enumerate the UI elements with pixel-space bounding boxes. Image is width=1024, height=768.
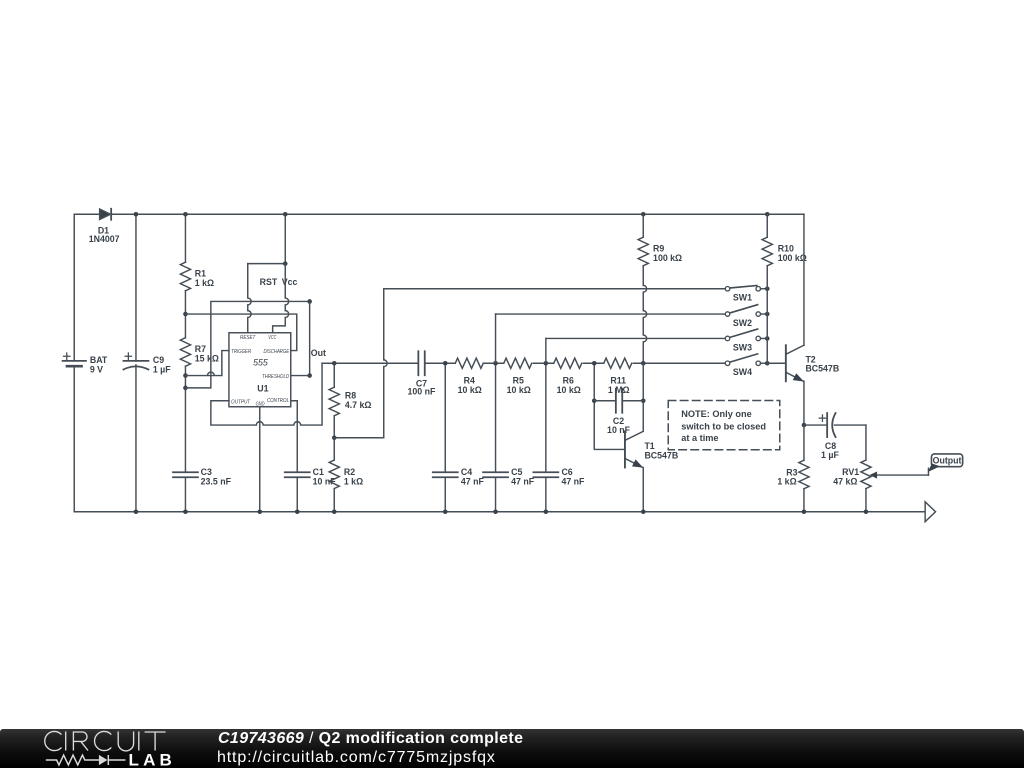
svg-text:1 MΩ: 1 MΩ xyxy=(608,385,630,395)
svg-text:15 kΩ: 15 kΩ xyxy=(195,353,219,363)
svg-text:Out: Out xyxy=(311,348,326,358)
svg-text:U1: U1 xyxy=(257,383,268,393)
svg-text:47 nF: 47 nF xyxy=(461,476,485,486)
svg-text:4.7 kΩ: 4.7 kΩ xyxy=(345,400,372,410)
wire T2 emitter drop xyxy=(803,381,805,425)
resistor R7 15 kOhm xyxy=(180,314,219,472)
svg-text:100 kΩ: 100 kΩ xyxy=(653,253,682,263)
svg-text:10 kΩ: 10 kΩ xyxy=(507,385,531,395)
wire T1 base drop xyxy=(594,363,625,449)
capacitor C3 23.5 nF xyxy=(173,467,232,512)
svg-text:1 µF: 1 µF xyxy=(821,450,839,460)
wire discharge net (R1/R7 to DIS pin) xyxy=(185,314,296,351)
svg-text:OUTPUT: OUTPUT xyxy=(231,399,251,405)
node C2 left junction xyxy=(592,398,597,403)
capacitor C6 47 nF xyxy=(533,363,585,512)
svg-text:R7: R7 xyxy=(195,344,206,354)
svg-text:SW1: SW1 xyxy=(733,293,752,303)
node top-rail junction at R9 xyxy=(641,212,646,217)
wire SW2 row xyxy=(496,313,726,315)
CircuitLab logo xyxy=(0,729,190,767)
svg-text:R10: R10 xyxy=(778,243,794,253)
wire GND pin to ground rail xyxy=(259,407,261,512)
resistor R3 1 kOhm xyxy=(777,425,809,512)
node ground junction at R2 xyxy=(332,509,337,514)
node C2 right junction xyxy=(641,398,646,403)
resistor R8 4.7 kOhm xyxy=(329,363,371,438)
node signal junction at C6 xyxy=(544,361,549,366)
node ground junction at C3 xyxy=(183,509,188,514)
svg-text:1N4007: 1N4007 xyxy=(89,234,120,244)
svg-text:SW2: SW2 xyxy=(733,318,752,328)
svg-text:CONTROL: CONTROL xyxy=(267,398,289,404)
wire top rail (Vcc net) xyxy=(74,213,804,215)
svg-text:Output: Output xyxy=(933,455,962,465)
node signal-T1base junction xyxy=(592,361,597,366)
capacitor C1 10 nF on CONTROL pin xyxy=(285,401,337,512)
wire SW1 row xyxy=(384,288,726,290)
node Vcc loop junction xyxy=(283,261,288,266)
svg-text:10 nF: 10 nF xyxy=(313,476,337,486)
wire T1 collector riser xyxy=(642,363,644,431)
svg-text:RESET: RESET xyxy=(240,335,256,341)
wire RST pin drop (hops A,B) xyxy=(248,264,251,333)
wire threshold net horizontal xyxy=(185,301,309,387)
capacitor C5 47 nF xyxy=(483,363,535,512)
node R7-trigger junction xyxy=(183,373,188,378)
node Out-line top junction xyxy=(307,299,312,304)
wire Vcc pin drop (hops A,B) xyxy=(273,264,289,333)
svg-text:1 kΩ: 1 kΩ xyxy=(777,476,796,486)
wire ground rail (bottom) xyxy=(74,511,925,513)
node ground junction at T1 emitter xyxy=(641,509,646,514)
node SW1-R10 junction xyxy=(765,286,770,291)
switch SW2 xyxy=(725,305,767,328)
resistor R9 100 kOhm xyxy=(638,214,682,363)
node top-rail junction at C9 xyxy=(134,212,139,217)
rail end arrow xyxy=(925,502,935,522)
resistor R6 10 kOhm xyxy=(554,358,582,395)
resistor R1 1 kOhm xyxy=(180,214,214,314)
svg-text:100 nF: 100 nF xyxy=(408,387,436,397)
note box (dashed) xyxy=(668,401,780,450)
svg-text:1 kΩ: 1 kΩ xyxy=(195,278,214,288)
svg-text:DISCHARGE: DISCHARGE xyxy=(264,349,290,355)
node signal junction at C4 xyxy=(443,361,448,366)
svg-text:switch to be closed: switch to be closed xyxy=(681,421,766,431)
node ground junction at C4 xyxy=(443,509,448,514)
node top-rail junction at R1 xyxy=(183,212,188,217)
capacitor C2 10 nF xyxy=(594,389,643,435)
svg-text:LAB: LAB xyxy=(129,750,177,767)
node SW2-R10 junction xyxy=(765,312,770,317)
svg-text:VCC: VCC xyxy=(268,335,276,341)
node Output flag xyxy=(928,454,963,472)
svg-text:1 kΩ: 1 kΩ xyxy=(344,476,363,486)
node top-rail junction at 555 Vcc xyxy=(283,212,288,217)
svg-text:47 kΩ: 47 kΩ xyxy=(833,476,857,486)
svg-text:Vcc: Vcc xyxy=(282,277,298,287)
svg-text:BC547B: BC547B xyxy=(805,364,839,374)
node R1-R7-discharge junction xyxy=(183,312,188,317)
svg-text:R9: R9 xyxy=(653,243,664,253)
svg-text:47 nF: 47 nF xyxy=(511,476,535,486)
svg-text:SW3: SW3 xyxy=(733,342,752,352)
svg-text:10 nF: 10 nF xyxy=(607,425,631,435)
wire signal line (555 out net) xyxy=(322,362,725,364)
node SW4-T2 junction xyxy=(765,361,770,366)
svg-text:BC547B: BC547B xyxy=(644,450,678,460)
node ground junction at RV1 xyxy=(864,509,869,514)
node R8-R2-SW1 junction xyxy=(332,435,337,440)
svg-text:THRESHOLD: THRESHOLD xyxy=(262,374,289,380)
wire 555 output to signal line (hops GND,CONTROL) xyxy=(211,363,322,425)
node ground junction at GND xyxy=(257,509,262,514)
switch SW4 xyxy=(725,354,767,377)
resistor R2 1 kOhm xyxy=(329,438,363,512)
wire threshold pin xyxy=(291,375,310,377)
transistor T2 BC547B xyxy=(786,345,839,381)
node top-rail junction at R10 xyxy=(765,212,770,217)
svg-text:9 V: 9 V xyxy=(90,364,103,374)
node ground junction at R3 xyxy=(802,509,807,514)
wire SW3 row xyxy=(546,337,726,339)
transistor T1 BC547B xyxy=(625,431,678,511)
svg-text:RST: RST xyxy=(260,277,278,287)
capacitor C7 100 nF xyxy=(408,351,436,396)
svg-text:10 kΩ: 10 kΩ xyxy=(458,385,482,395)
wire trigger pin jog (hop) xyxy=(185,351,229,376)
svg-text:NOTE: Only one: NOTE: Only one xyxy=(681,409,751,419)
svg-text:555: 555 xyxy=(253,358,268,368)
node Out-threshold junction xyxy=(307,373,312,378)
svg-text:10 kΩ: 10 kΩ xyxy=(557,385,581,395)
svg-text:RV1: RV1 xyxy=(842,467,859,477)
wire Vcc drop from top rail xyxy=(284,214,286,263)
wire SW2 tap riser xyxy=(495,314,497,363)
node R7-threshold junction xyxy=(183,386,188,391)
switch SW3 xyxy=(725,329,767,352)
wire Out vertical xyxy=(309,301,311,375)
op-amp U1 555 timer box xyxy=(229,333,291,408)
wire SW1 tap (hops signal line) xyxy=(334,437,384,439)
capacitor C8 1 uF (polarized) xyxy=(804,413,866,460)
svg-text:47 nF: 47 nF xyxy=(561,476,585,486)
node signal junction at C5 xyxy=(493,361,498,366)
svg-text:SW4: SW4 xyxy=(733,367,752,377)
resistor R11 1 MOhm xyxy=(604,358,632,395)
potentiometer RV1 47 kOhm xyxy=(833,425,928,512)
node ground junction at C5 xyxy=(493,509,498,514)
svg-text:23.5 nF: 23.5 nF xyxy=(201,476,232,486)
resistor R5 10 kOhm xyxy=(504,358,532,395)
node R9-signal junction xyxy=(641,361,646,366)
switch SW1 (closed) xyxy=(725,286,767,303)
resistor R4 10 kOhm xyxy=(455,358,483,395)
wire SW3 tap riser xyxy=(545,338,547,363)
svg-text:1 µF: 1 µF xyxy=(153,364,171,374)
node ground junction at C9 xyxy=(134,509,139,514)
node ground junction at C6 xyxy=(544,509,549,514)
wire T2 collector to top rail xyxy=(803,214,805,345)
diode D1 1N4007 xyxy=(89,209,120,244)
node ground junction at C1 xyxy=(295,509,300,514)
battery BAT 9 V xyxy=(63,214,108,512)
svg-text:100 kΩ: 100 kΩ xyxy=(778,253,807,263)
capacitor C4 47 nF xyxy=(433,363,485,512)
resistor R10 100 kOhm xyxy=(762,214,807,363)
capacitor C9 1 uF (polarized) xyxy=(123,214,171,512)
node signal-R8 junction xyxy=(332,361,337,366)
node SW3-R10 junction xyxy=(765,336,770,341)
node T2 emitter-C8 junction xyxy=(802,423,807,428)
wire RST loop top xyxy=(248,263,286,265)
svg-text:R1: R1 xyxy=(195,268,206,278)
wire T2 base xyxy=(767,362,786,364)
wire output flag drop xyxy=(927,468,929,475)
svg-text:TRIGGER: TRIGGER xyxy=(231,349,251,355)
svg-text:at a time: at a time xyxy=(681,433,718,443)
